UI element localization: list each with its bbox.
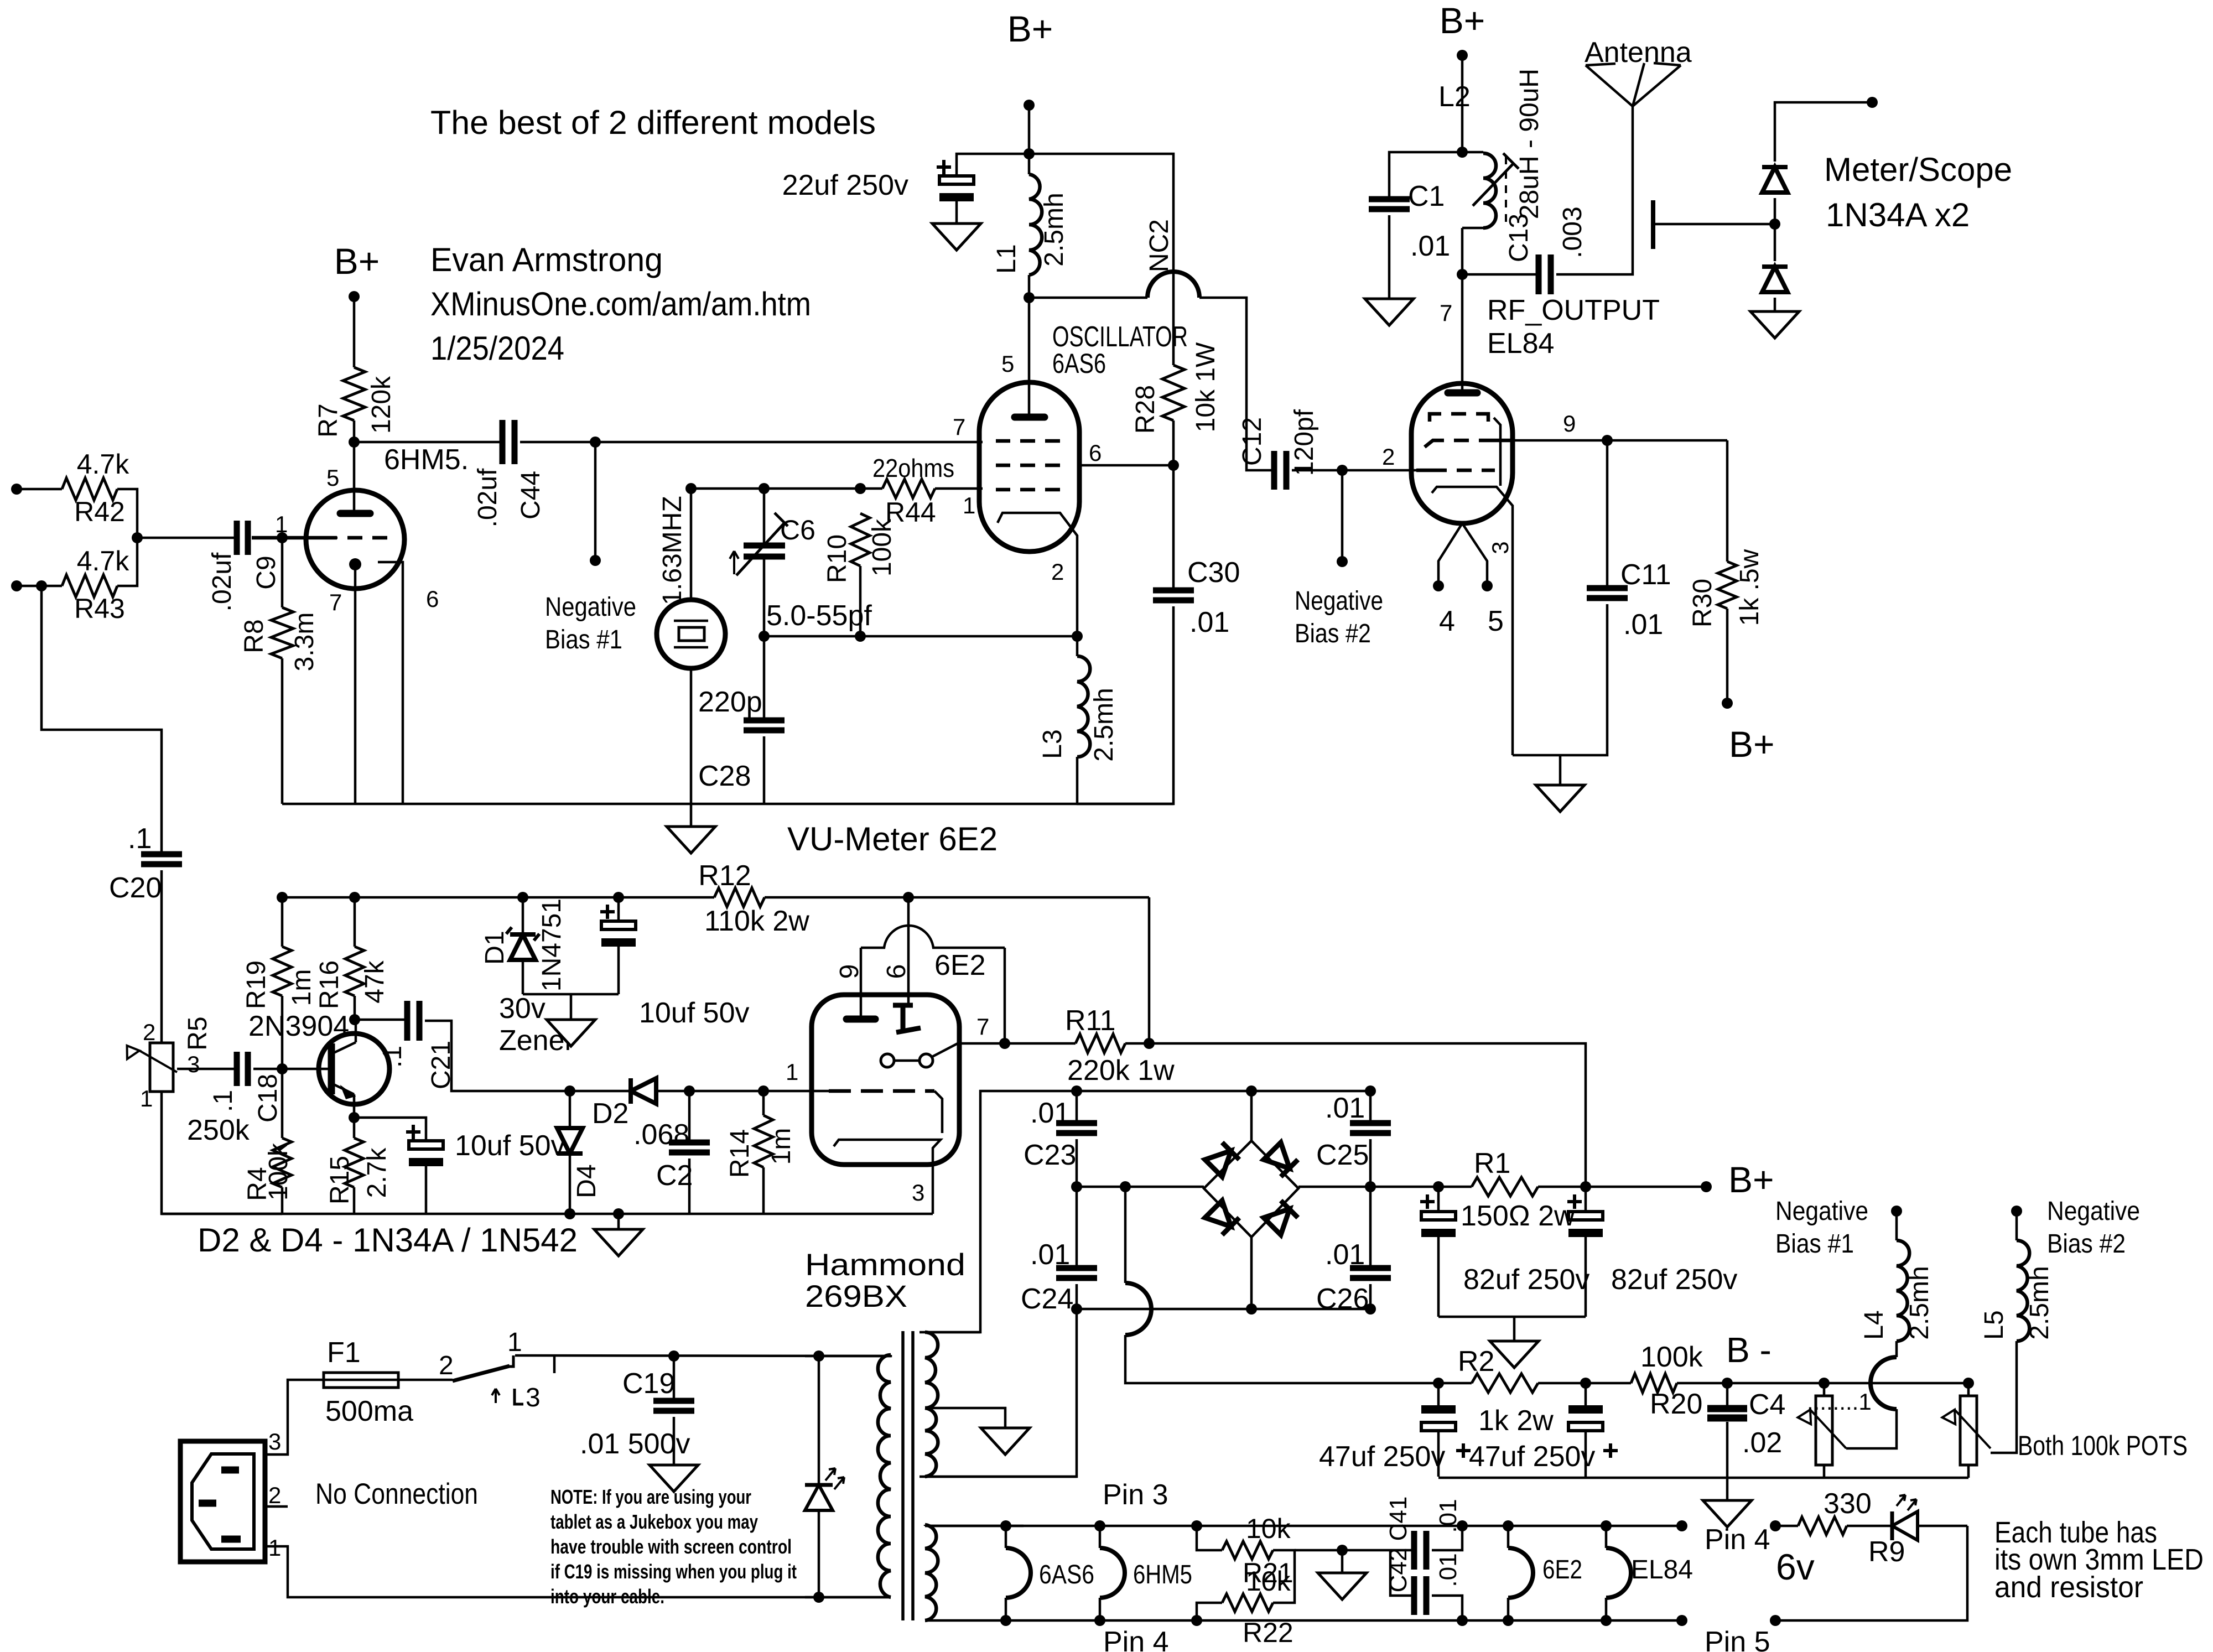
svg-text:R16: R16 xyxy=(315,960,344,1009)
wire B- line to pots xyxy=(1824,1382,1968,1385)
bridge rectifier outline xyxy=(1204,1141,1298,1237)
crystal Y1 1.63MHZ xyxy=(657,496,725,668)
tube EL84 g3 tie xyxy=(1494,418,1500,486)
pin 9 label EL84 xyxy=(1563,411,1576,437)
node vu ground tap xyxy=(613,1208,624,1219)
node B+ top right xyxy=(1457,50,1468,61)
svg-text:C44: C44 xyxy=(516,471,546,520)
wire emitter to cap10uf xyxy=(354,1118,426,1141)
node bridge top tap xyxy=(1246,1085,1257,1097)
pin 2 label 6AS6 xyxy=(1051,559,1064,585)
svg-text:L2: L2 xyxy=(1438,81,1471,113)
node 6E2 pin7 junction xyxy=(999,1038,1010,1049)
svg-text:.1: .1 xyxy=(209,1090,238,1112)
label dotted 1 xyxy=(1807,1389,1872,1415)
wire L5 to pot2 wiper xyxy=(1991,1341,2017,1453)
node C19 tap xyxy=(668,1350,679,1362)
label and resistor xyxy=(1994,1571,2143,1604)
resistor R21 xyxy=(1197,1513,1293,1588)
label 6AS6 xyxy=(1052,348,1106,379)
svg-text:2: 2 xyxy=(143,1019,155,1045)
svg-text:120k: 120k xyxy=(367,376,396,434)
svg-text:6: 6 xyxy=(1089,440,1102,466)
node input lower tap xyxy=(36,580,47,591)
wire R21 R22 join xyxy=(1273,1550,1295,1603)
wire C18 to base xyxy=(253,1068,329,1071)
wire C6 bottom lead xyxy=(763,557,766,636)
svg-text:150Ω 2w: 150Ω 2w xyxy=(1461,1200,1575,1232)
svg-text:L4: L4 xyxy=(1859,1310,1889,1339)
svg-text:3: 3 xyxy=(526,1383,541,1412)
label Pin 3 xyxy=(1103,1479,1168,1511)
pin 1 label 6HM5 xyxy=(275,511,288,537)
node L2 top junction xyxy=(1457,147,1468,158)
svg-text:100k: 100k xyxy=(1640,1341,1703,1373)
svg-text:C9: C9 xyxy=(252,555,281,589)
wire R16 to collector xyxy=(354,996,356,1020)
capacitor C11 xyxy=(1587,440,1671,641)
svg-text:R10: R10 xyxy=(823,534,852,583)
wire C1 to ground xyxy=(1388,215,1391,299)
heater EL84 xyxy=(1606,1526,1631,1620)
svg-text:1: 1 xyxy=(963,492,975,518)
capacitor C9 xyxy=(207,521,281,611)
node heater 6E2 top xyxy=(1503,1520,1514,1531)
svg-text:Bias #2: Bias #2 xyxy=(1295,619,1371,648)
tube 6AS6 grid row1 xyxy=(996,439,1060,443)
svg-text:R43: R43 xyxy=(74,593,125,624)
node pot1 top xyxy=(1819,1378,1830,1389)
resistor R28 xyxy=(1131,342,1220,434)
wire C42 drop xyxy=(1390,1550,1414,1596)
svg-text:R28: R28 xyxy=(1131,385,1160,434)
svg-text:3: 3 xyxy=(1487,541,1513,554)
svg-text:R42: R42 xyxy=(74,496,125,527)
label Pin 4 left xyxy=(1103,1626,1169,1652)
wire pot wiper to C18 xyxy=(177,1068,237,1071)
resistor R11 xyxy=(1065,1005,1175,1087)
node B+ mid xyxy=(1024,100,1035,111)
resistor R30 xyxy=(1688,440,1764,627)
wire input upper xyxy=(17,488,62,491)
svg-text:.02uf: .02uf xyxy=(473,468,502,527)
label 82uf-1 xyxy=(1463,1264,1589,1296)
node 6E2 pin6 top xyxy=(903,892,914,903)
svg-text:1m: 1m xyxy=(767,1128,796,1165)
svg-text:Antenna: Antenna xyxy=(1585,37,1692,69)
node Pin5 line start xyxy=(1770,1615,1781,1626)
svg-text:C2: C2 xyxy=(656,1160,693,1192)
capacitor C18 xyxy=(209,1052,283,1123)
node C26 bottom xyxy=(1365,1303,1376,1315)
svg-text:R7: R7 xyxy=(314,403,343,437)
date text xyxy=(430,330,564,367)
pin 3 label EL84 xyxy=(1487,541,1513,554)
node R42-R43 junction xyxy=(132,532,143,543)
capacitor C26 xyxy=(1316,1187,1391,1315)
node meter mid xyxy=(1769,219,1780,230)
svg-text:1k .5w: 1k .5w xyxy=(1735,549,1764,626)
tube 6AS6 grid row2 xyxy=(996,464,1060,467)
wire L1 top lead xyxy=(1028,154,1031,174)
tube 6HM5 cathode dot xyxy=(349,558,361,570)
pin 1 label near R44 xyxy=(963,492,975,518)
svg-text:Pin 5: Pin 5 xyxy=(1705,1626,1770,1652)
ground zener xyxy=(547,1020,595,1046)
tube V4 6E2 envelope xyxy=(812,995,959,1165)
wire R5 pin1 to bus xyxy=(162,1092,282,1214)
node L3 top xyxy=(1072,631,1083,642)
svg-text:L1: L1 xyxy=(992,244,1021,273)
svg-text:28uH - 90uH: 28uH - 90uH xyxy=(1515,69,1544,219)
transformer primary winding xyxy=(805,1355,891,1597)
svg-text:4.7k: 4.7k xyxy=(77,449,130,480)
label No Connection xyxy=(315,1478,478,1510)
author text xyxy=(430,241,663,278)
wire vu bottom bus xyxy=(162,1213,933,1215)
svg-text:82uf 250v: 82uf 250v xyxy=(1463,1264,1589,1296)
svg-text:Negative: Negative xyxy=(545,593,636,622)
inductor L4 xyxy=(1859,1211,1934,1341)
label L2 xyxy=(1438,81,1471,113)
inductor L5 xyxy=(1980,1211,2054,1341)
svg-text:1: 1 xyxy=(140,1085,153,1111)
capacitor C42 xyxy=(1385,1548,1462,1615)
label VU-Meter 6E2 xyxy=(787,820,998,858)
svg-text:and resistor: and resistor xyxy=(1994,1571,2143,1604)
capacitor C4 xyxy=(1707,1383,1785,1459)
svg-text:.1: .1 xyxy=(128,823,152,855)
pin 1 label inlet xyxy=(268,1535,281,1561)
resistor R20 xyxy=(1631,1341,1703,1420)
ground below 22uf xyxy=(932,224,981,250)
svg-text:L5: L5 xyxy=(1980,1310,2009,1339)
wire 6E2 pin7 xyxy=(958,1042,1076,1045)
capacitor C23 xyxy=(1024,1091,1097,1171)
svg-text:D2 & D4 - 1N34A / 1N542: D2 & D4 - 1N34A / 1N542 xyxy=(198,1222,578,1259)
svg-text:4.7k: 4.7k xyxy=(77,546,130,576)
wire L1 junction to NC2 line xyxy=(1029,297,1147,299)
svg-text:have trouble with screen contr: have trouble with screen control xyxy=(550,1535,792,1558)
svg-text:C1: C1 xyxy=(1408,180,1445,212)
label Negative Bias #1 xyxy=(545,593,636,654)
svg-text:.02uf: .02uf xyxy=(207,552,237,611)
heater 6E2 xyxy=(1508,1526,1533,1620)
node negative bias2 tap xyxy=(1337,465,1348,476)
wire NC2 line right xyxy=(1199,298,1246,454)
node 6HM5 plate junction xyxy=(349,437,360,448)
svg-text:22uf 250v: 22uf 250v xyxy=(782,169,908,201)
svg-text:10uf 50v: 10uf 50v xyxy=(455,1130,565,1162)
ground C19 xyxy=(650,1465,698,1492)
svg-text:D2: D2 xyxy=(592,1098,628,1130)
pin 7 label 6HM5 xyxy=(329,589,342,615)
wire fuse to switch xyxy=(398,1379,453,1381)
node neg bias1 choke terminal xyxy=(1891,1206,1902,1217)
label 6E2 xyxy=(934,949,986,981)
svg-text:10k: 10k xyxy=(1246,1513,1291,1544)
node heater EL84 top xyxy=(1601,1520,1612,1531)
wire EL84 pin9 xyxy=(1513,439,1727,442)
wire bridge bottom lead xyxy=(1250,1237,1253,1309)
node bridge bottom tap xyxy=(1246,1303,1257,1315)
tube 6HM5 internal lead pin6 xyxy=(378,562,403,804)
node EL84 pin5 terminal xyxy=(1482,580,1493,591)
label 6E2 heater xyxy=(1542,1555,1582,1585)
node C26 top xyxy=(1365,1181,1376,1192)
diode D4 xyxy=(557,1091,601,1214)
node B+ supply terminal xyxy=(1701,1181,1712,1192)
wire R8 to bus xyxy=(281,658,284,804)
svg-text:R14: R14 xyxy=(725,1129,755,1178)
svg-text:B -: B - xyxy=(1726,1330,1772,1370)
svg-text:5: 5 xyxy=(326,465,339,491)
svg-text:220k 1w: 220k 1w xyxy=(1067,1054,1175,1087)
node L1 top junction xyxy=(1024,148,1035,159)
svg-text:Bias #1: Bias #1 xyxy=(1775,1229,1854,1259)
svg-text:.01: .01 xyxy=(1325,1092,1365,1124)
node input terminal lower xyxy=(11,580,22,591)
LED power indicator xyxy=(805,1356,844,1597)
node LED tap xyxy=(813,1350,824,1362)
node heater mid ground tap xyxy=(1337,1545,1348,1556)
node L1 bottom junction xyxy=(1024,292,1035,303)
node R19 top xyxy=(277,892,288,903)
svg-text:.01: .01 xyxy=(1410,230,1450,262)
svg-text:C6: C6 xyxy=(780,515,815,546)
svg-text:B+: B+ xyxy=(334,241,380,282)
label Hammond 269BX xyxy=(805,1247,965,1313)
svg-text:3: 3 xyxy=(187,1051,200,1077)
node input terminal upper xyxy=(11,484,22,495)
inductor L1 xyxy=(992,174,1069,298)
LED tube indicator xyxy=(1847,1495,1967,1540)
wire R7 to plate junction xyxy=(353,420,356,442)
svg-text:6AS6: 6AS6 xyxy=(1052,348,1106,379)
wire C23 to mid xyxy=(1076,1139,1078,1187)
wire C6 top lead xyxy=(763,489,766,546)
wire meter top xyxy=(1775,102,1872,162)
svg-text:2.7k: 2.7k xyxy=(362,1147,392,1198)
wire R1 leads xyxy=(1438,1186,1586,1188)
wire meter mid upper xyxy=(1774,198,1776,224)
node heater 6AS6 bottom xyxy=(1000,1615,1011,1626)
tube 6E2 grid dashes xyxy=(829,1089,934,1093)
label EL84 xyxy=(1487,328,1554,360)
pin 2 label EL84 xyxy=(1382,444,1395,470)
wire L3 leads xyxy=(1076,636,1079,804)
tube 6HM5 plate xyxy=(340,510,370,517)
capacitor C28 xyxy=(698,686,785,792)
svg-text:6: 6 xyxy=(426,586,439,612)
tube EL84 grid row1 xyxy=(1430,414,1488,422)
svg-text:C25: C25 xyxy=(1316,1139,1369,1171)
jump NC2 xyxy=(1145,219,1199,298)
wire B+ line right xyxy=(1586,1186,1706,1188)
svg-text:D1: D1 xyxy=(480,931,510,964)
wire crystal bottom lead xyxy=(690,668,693,804)
capacitor C12 xyxy=(1238,409,1319,490)
wire C26 down xyxy=(1369,1284,1372,1309)
resistor R15 xyxy=(325,1118,392,1204)
node RF output junction xyxy=(1457,269,1468,280)
svg-text:1: 1 xyxy=(268,1535,281,1561)
wire C42 right xyxy=(1432,1596,1462,1620)
svg-text:1N34A x2: 1N34A x2 xyxy=(1826,196,1970,233)
svg-text:47uf 250v: 47uf 250v xyxy=(1319,1441,1445,1473)
wire D2 to 6E2 pin1 xyxy=(689,1090,763,1093)
power label B+ mid xyxy=(1007,8,1053,49)
pin 7 label EL84 xyxy=(1440,300,1452,326)
node R22 tap bottom xyxy=(1191,1615,1202,1626)
svg-text:Bias #2: Bias #2 xyxy=(2047,1229,2126,1259)
diode D meter upper xyxy=(1762,167,1788,193)
wire grid line y883 xyxy=(691,487,882,490)
svg-text:7: 7 xyxy=(953,414,965,440)
fuse F1 xyxy=(324,1337,413,1427)
label its own 3mm LED xyxy=(1994,1543,2204,1576)
svg-text:R1: R1 xyxy=(1474,1147,1510,1180)
node R16 top xyxy=(349,892,360,903)
svg-text:5: 5 xyxy=(1488,605,1504,637)
capacitor C44 xyxy=(473,420,546,527)
wire bridge top lead xyxy=(1250,1091,1253,1141)
node C42 bottom tap xyxy=(1457,1615,1468,1626)
tube V1 6HM5 envelope xyxy=(306,490,404,589)
pin 6 label 6AS6 xyxy=(1089,440,1102,466)
wire R15 to bus xyxy=(353,1187,356,1214)
pin 6 label 6E2 xyxy=(882,964,911,979)
diode bridge BR xyxy=(1264,1201,1298,1235)
svg-text:2: 2 xyxy=(1051,559,1064,585)
wire C20 to pot xyxy=(160,870,163,1043)
wire R43 tap down xyxy=(41,586,162,854)
capacitor 22uf 250v xyxy=(782,160,974,201)
pin 2 label inlet xyxy=(268,1482,281,1508)
wire 6E2 pin1 xyxy=(763,1090,829,1093)
svg-text:.01: .01 xyxy=(1030,1097,1070,1129)
wire R11 right xyxy=(1125,1043,1586,1187)
svg-text:220p: 220p xyxy=(698,686,762,718)
svg-text:2.5mh: 2.5mh xyxy=(1089,688,1119,761)
node grid junction xyxy=(277,532,288,543)
svg-text:269BX: 269BX xyxy=(805,1279,907,1313)
node negative bias1 tap xyxy=(590,437,601,448)
label 6AS6 heater xyxy=(1039,1560,1094,1589)
resistor R2 xyxy=(1458,1346,1554,1437)
capacitor 10uf 50v emitter xyxy=(406,1125,565,1166)
resistor R43 xyxy=(62,546,129,624)
capacitor C20 xyxy=(109,823,182,904)
node D2 right junction xyxy=(684,1085,695,1097)
node C24 top xyxy=(1071,1181,1082,1192)
wire R30 to B+ xyxy=(1726,609,1729,703)
svg-text:3.3m: 3.3m xyxy=(290,612,319,672)
wire Pin4 heater bus xyxy=(925,1619,1682,1622)
wire switch to C19 line xyxy=(515,1355,888,1356)
wire transformer return xyxy=(920,1309,1077,1477)
node 82uf-2 top xyxy=(1580,1181,1591,1192)
wire inlet pin2 stub xyxy=(265,1505,288,1508)
svg-text:3: 3 xyxy=(912,1180,924,1206)
node emitter junction xyxy=(349,1112,360,1123)
svg-text:EL84: EL84 xyxy=(1487,328,1554,360)
node C25 top xyxy=(1365,1085,1376,1097)
svg-text:C20: C20 xyxy=(109,872,162,904)
svg-text:4: 4 xyxy=(1439,605,1455,637)
svg-text:R19: R19 xyxy=(242,960,271,1009)
label Antenna xyxy=(1585,37,1692,69)
node meter terminal xyxy=(1867,97,1878,108)
pin 4 label EL84 xyxy=(1439,605,1455,637)
wire EL84 pins45 xyxy=(1438,523,1487,583)
svg-text:NOTE: If you are using your: NOTE: If you are using your xyxy=(550,1485,751,1508)
pin 1 label 6E2 xyxy=(786,1059,798,1085)
node C6 bottom xyxy=(759,631,770,642)
wire rail y1622 mid xyxy=(765,896,1149,899)
svg-text:9: 9 xyxy=(1563,411,1576,437)
wire R28 to pin6 junction xyxy=(1172,420,1175,465)
pin 9 label 6E2 xyxy=(835,964,864,979)
node EL84 pin4 terminal xyxy=(1433,580,1444,591)
wire C24 down xyxy=(1076,1284,1078,1309)
tube EL84 grid row2 xyxy=(1425,440,1513,447)
ground below crystal xyxy=(667,804,715,853)
svg-text:.01: .01 xyxy=(1325,1239,1365,1271)
label Negative Bias #1 right xyxy=(1775,1197,1868,1259)
svg-text:Negative: Negative xyxy=(1295,586,1383,616)
pin 7 label 6E2 xyxy=(976,1014,989,1040)
wire C30 to bus corner xyxy=(1077,606,1173,804)
svg-text:B+: B+ xyxy=(1728,1159,1774,1200)
resistor R4 xyxy=(243,1138,293,1201)
svg-text:.01: .01 xyxy=(1030,1239,1070,1271)
label 2N3904 xyxy=(248,1010,349,1042)
transistor Q1 2N3904 xyxy=(319,1020,389,1118)
svg-text:R8: R8 xyxy=(240,619,269,653)
resistor R19 xyxy=(242,897,316,1009)
capacitor C21 xyxy=(378,1001,456,1089)
svg-text:500ma: 500ma xyxy=(325,1395,413,1427)
svg-text:D4: D4 xyxy=(572,1164,601,1198)
label 6v xyxy=(1776,1546,1815,1587)
label 6HM5 heater xyxy=(1133,1560,1192,1589)
svg-text:22ohms: 22ohms xyxy=(872,454,954,482)
wire C9 to 6HM5 grid xyxy=(253,537,337,539)
svg-text:6E2: 6E2 xyxy=(934,949,986,981)
switch contact tick xyxy=(553,1357,556,1373)
svg-text:100k: 100k xyxy=(264,1142,293,1201)
tube 6E2 dome xyxy=(861,926,1005,948)
node 47uf-2 top xyxy=(1580,1378,1591,1389)
node 10uf top xyxy=(613,892,624,903)
power label B+ supply xyxy=(1728,1159,1774,1200)
wire rail y1622 left xyxy=(282,896,714,899)
wire B+ to L2 xyxy=(1461,55,1464,152)
svg-text:1m: 1m xyxy=(287,969,316,1006)
node pin6-R28 junction xyxy=(1168,460,1179,471)
svg-text:if C19 is missing when you plu: if C19 is missing when you plug it xyxy=(550,1560,797,1583)
tube V2 6AS6 envelope xyxy=(979,382,1079,552)
svg-text:R11: R11 xyxy=(1065,1005,1116,1037)
tube V3 EL84 envelope xyxy=(1411,383,1513,523)
pin 5 label EL84 xyxy=(1488,605,1504,637)
svg-text:R22: R22 xyxy=(1243,1617,1293,1648)
wire C4 to ground xyxy=(1726,1422,1729,1500)
wire C25 to mid xyxy=(1369,1139,1372,1187)
svg-text:No Connection: No Connection xyxy=(315,1478,478,1510)
wire mid line left xyxy=(1077,1186,1204,1188)
